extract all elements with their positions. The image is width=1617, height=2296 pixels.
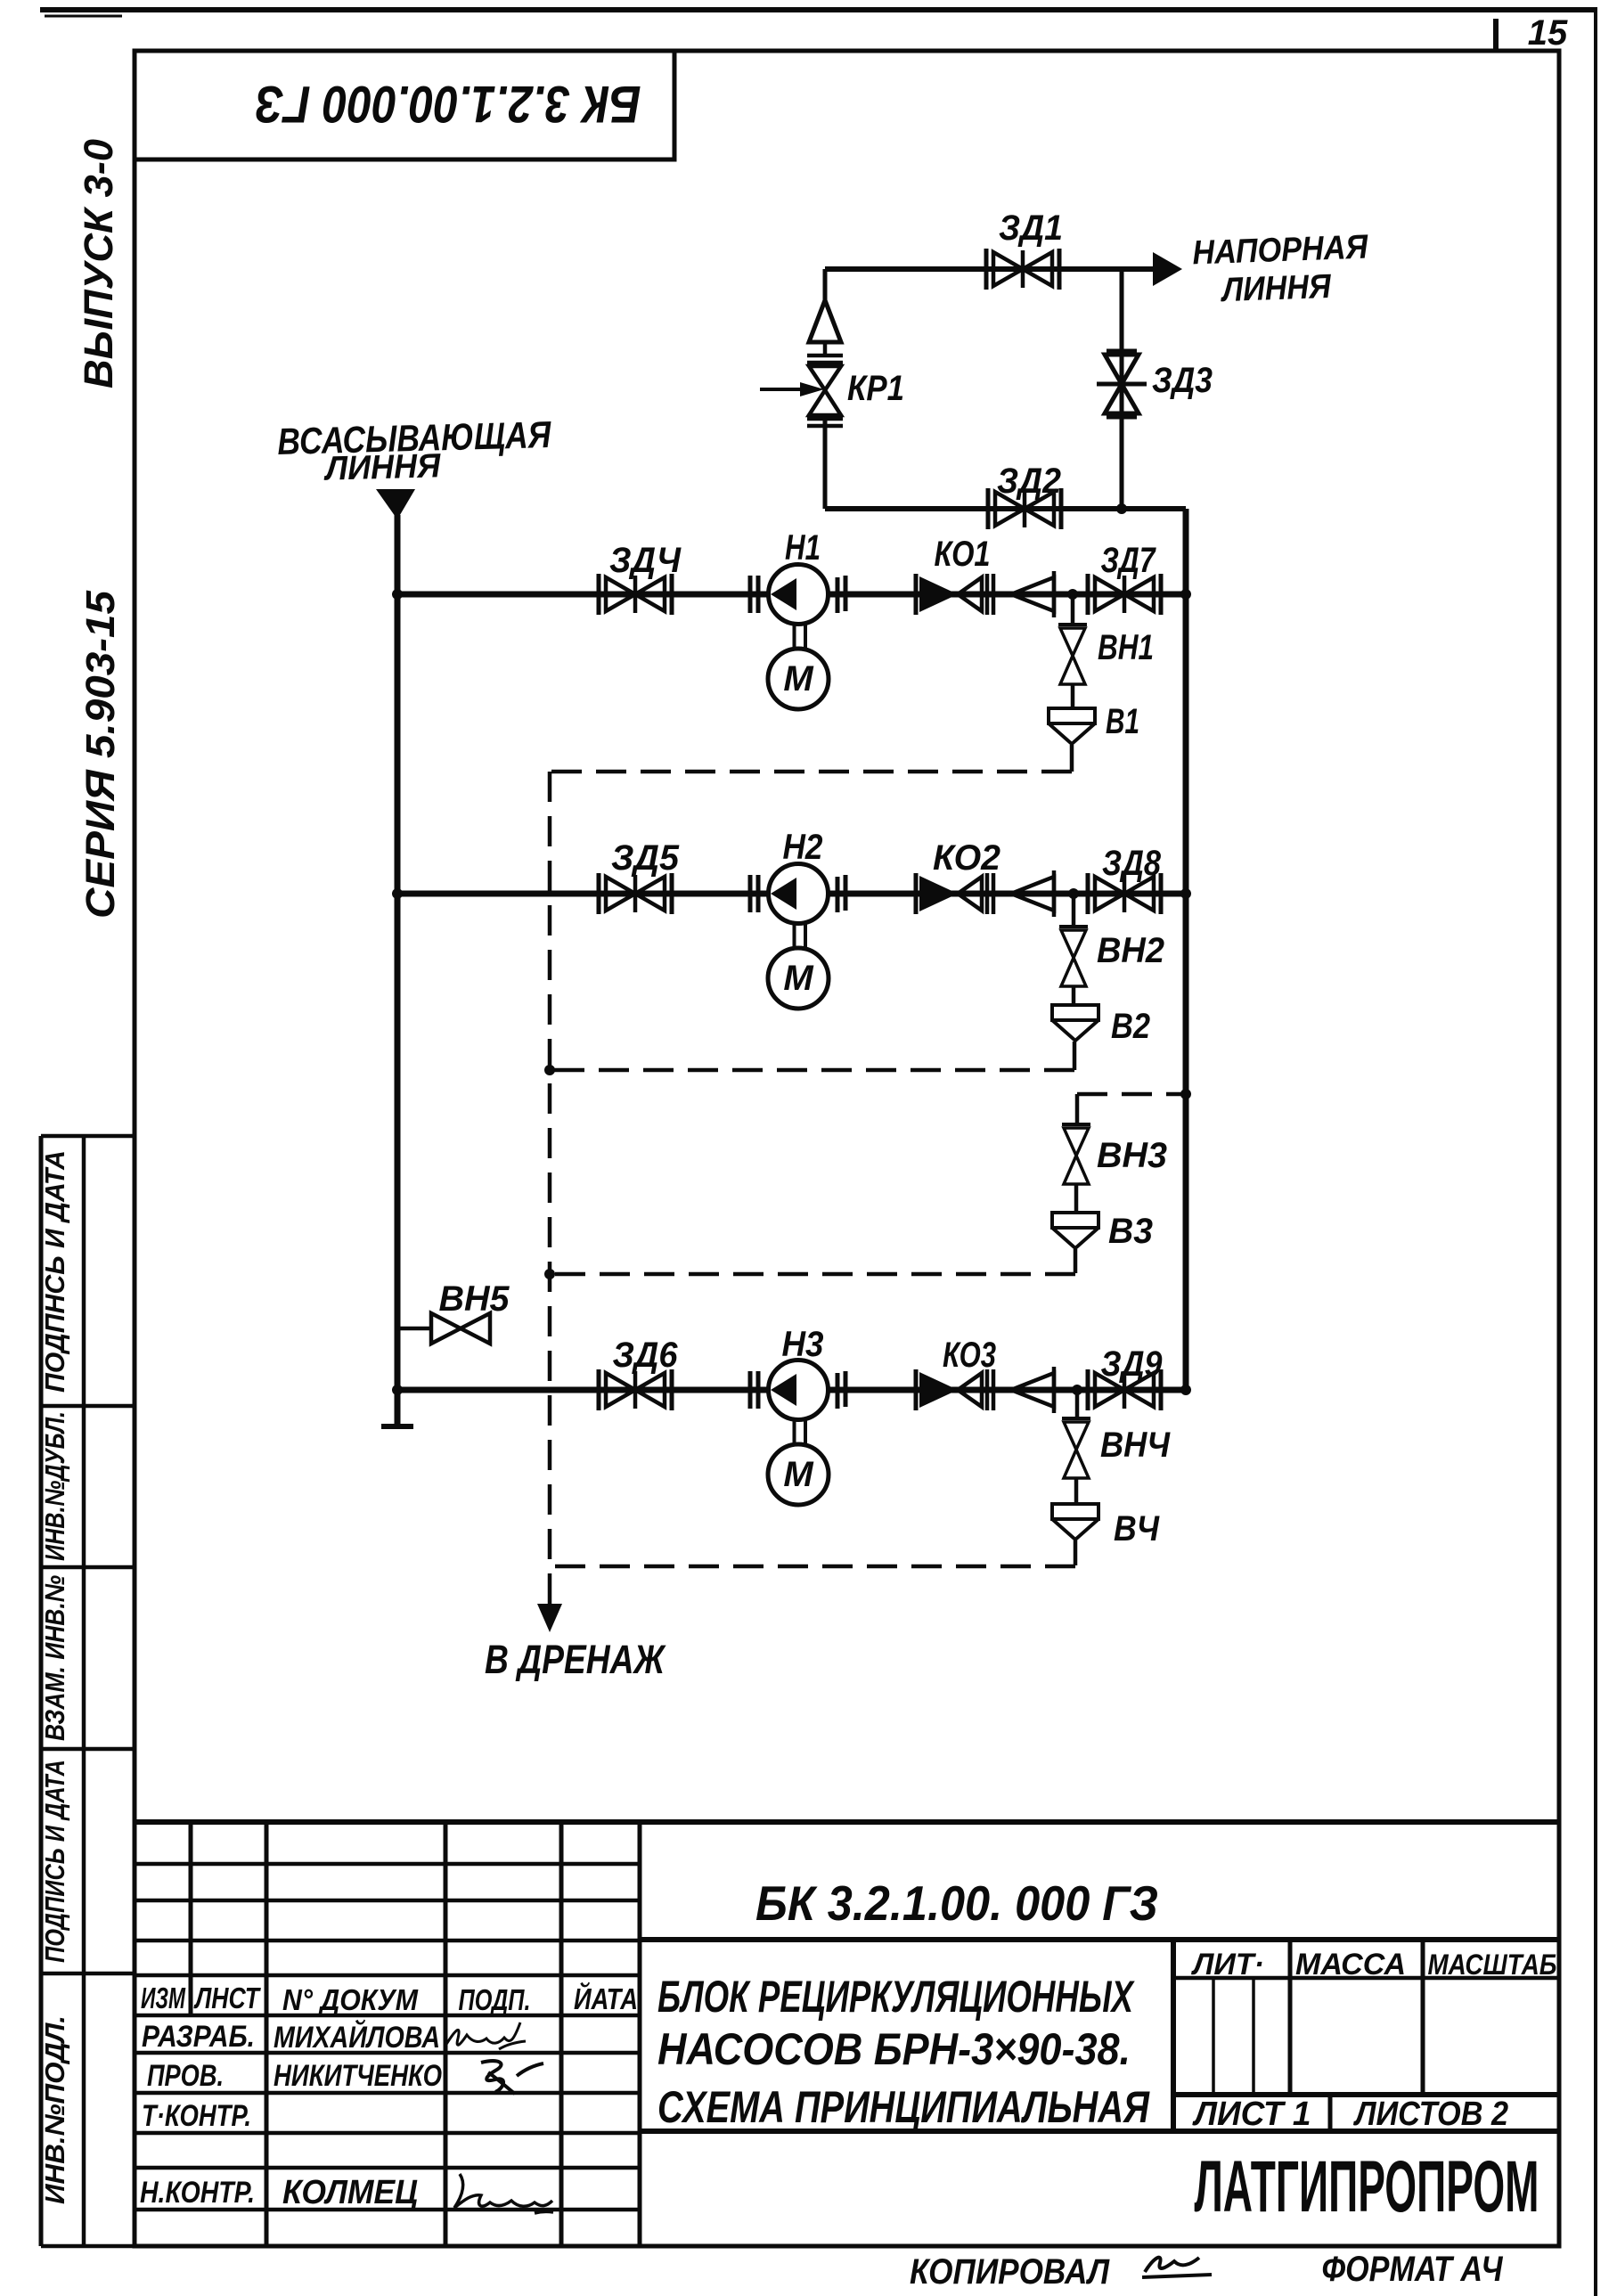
node manifold row2 left — [392, 888, 403, 899]
wire pump row 1 — [397, 592, 1186, 598]
drain funnel В2 — [1052, 1005, 1098, 1041]
КР1 actuator arrow — [760, 388, 802, 391]
node drain row2 — [544, 1065, 555, 1075]
designation box bottom line — [640, 1937, 1559, 1942]
wire KP1 branch vertical upper — [823, 269, 828, 303]
svg-text:ПОДП.: ПОДП. — [459, 1983, 531, 2016]
svg-text:ЛИННЯ: ЛИННЯ — [1219, 268, 1332, 309]
sidebar section lines — [41, 1136, 135, 2246]
check valve КО3 — [916, 1369, 993, 1410]
svg-text:ЛАТГИПРОПРОМ: ЛАТГИПРОПРОМ — [1195, 2146, 1539, 2227]
valve ЗД8 — [1088, 873, 1161, 914]
wire pump row 3 — [397, 1387, 1186, 1393]
wire KP1 branch vertical lower — [823, 417, 828, 509]
title block rows left table — [135, 1864, 640, 2210]
title text row line — [640, 2128, 1559, 2134]
svg-text:ВН1: ВН1 — [1098, 628, 1154, 667]
wire В2 stem — [1073, 1042, 1077, 1070]
svg-text:ЛИННЯ: ЛИННЯ — [323, 447, 442, 487]
relief cone above КР1 — [809, 300, 841, 342]
svg-text:ВЧ: ВЧ — [1114, 1509, 1160, 1548]
wire ВН3 to В3 — [1074, 1185, 1079, 1213]
svg-text:ВН2: ВН2 — [1097, 931, 1164, 970]
svg-text:КОЛМЕЦ: КОЛМЕЦ — [282, 2174, 418, 2211]
valve ВН1 — [1058, 625, 1087, 684]
wire В4 stem — [1074, 1540, 1078, 1565]
wire ВН2 to В2 — [1072, 987, 1076, 1005]
node drain В3 — [544, 1269, 555, 1279]
signature МИХАЙЛОВА — [445, 2022, 526, 2049]
node row3 drain branch — [1072, 1385, 1082, 1395]
svg-text:ЙАТА: ЙАТА — [574, 1981, 638, 2015]
svg-text:15: 15 — [1528, 13, 1568, 53]
svg-text:ЗД2: ЗД2 — [997, 462, 1061, 501]
svg-text:БК 3.2.1.00.000 ГЗ: БК 3.2.1.00.000 ГЗ — [256, 75, 641, 133]
node ЗД3-ЗД2 junction — [1116, 503, 1127, 514]
title block columns left table — [191, 1822, 640, 2246]
svg-text:ЛНСТ: ЛНСТ — [193, 1981, 261, 2014]
svg-text:ВН5: ВН5 — [439, 1279, 510, 1319]
ЛИТ subcolumns — [1213, 1978, 1254, 2095]
svg-text:ПРОВ.: ПРОВ. — [147, 2059, 224, 2093]
pump Н2 with motor — [750, 864, 845, 1009]
drain funnel В3 — [1052, 1213, 1098, 1248]
wire В1 stem — [1070, 745, 1074, 772]
valve ЗД2 — [988, 488, 1061, 529]
svg-text:МАССА: МАССА — [1295, 1948, 1406, 1981]
svg-text:РАЗРАБ.: РАЗРАБ. — [142, 2020, 255, 2054]
sidebar middle vertical — [82, 1136, 86, 2246]
svg-text:ЛИСТОВ 2: ЛИСТОВ 2 — [1352, 2096, 1508, 2133]
page outer top border line — [40, 7, 1597, 12]
valve ВН2 — [1059, 927, 1088, 986]
svg-text:БЛОК РЕЦИРКУЛЯЦИОННЫХ: БЛОК РЕЦИРКУЛЯЦИОННЫХ — [657, 1972, 1135, 2022]
svg-text:СХЕМА ПРИНЦИПИАЛЬНАЯ: СХЕМА ПРИНЦИПИАЛЬНАЯ — [657, 2082, 1150, 2132]
stamp box top-left — [135, 51, 674, 159]
svg-text:ВЫПУСК 3-0: ВЫПУСК 3-0 — [76, 139, 121, 388]
signature НИКИТЧЕНКО — [481, 2061, 543, 2094]
wire ВН1 to В1 — [1071, 685, 1075, 708]
svg-text:ЗДЧ: ЗДЧ — [609, 541, 682, 580]
svg-text:Н2: Н2 — [783, 828, 823, 867]
wire dashed manifold to ВН3 — [1077, 1092, 1186, 1097]
flange pair below КР1 — [807, 419, 843, 426]
wire pressure top line — [825, 266, 1156, 272]
svg-text:В3: В3 — [1108, 1212, 1153, 1251]
node manifold row2 right — [1180, 888, 1191, 899]
svg-text:КОПИРОВАЛ: КОПИРОВАЛ — [910, 2252, 1110, 2292]
svg-text:В1: В1 — [1106, 702, 1139, 741]
svg-text:ИНВ.№ДУБЛ.: ИНВ.№ДУБЛ. — [39, 1411, 70, 1561]
valve ЗД7 — [1088, 574, 1161, 615]
flange pair above КР1 — [807, 355, 843, 363]
svg-text:Н3: Н3 — [782, 1325, 824, 1364]
wire ВН4 branch — [1075, 1390, 1080, 1418]
node row2 drain branch — [1068, 888, 1079, 899]
wire dashed drain header row3 — [550, 1565, 1075, 1569]
pump Н1 with motor — [750, 565, 845, 710]
svg-text:НАСОСОВ БРН-3×90-38.: НАСОСОВ БРН-3×90-38. — [657, 2024, 1131, 2074]
svg-text:ЗД7: ЗД7 — [1101, 541, 1156, 580]
svg-text:ЗД5: ЗД5 — [611, 838, 680, 878]
svg-text:ИЗМ: ИЗМ — [141, 1981, 186, 2014]
suction line arrow — [376, 489, 415, 519]
svg-text:МАСШТАБ: МАСШТАБ — [1428, 1949, 1557, 1981]
wire right manifold vertical — [1183, 509, 1189, 1390]
svg-text:КР1: КР1 — [847, 369, 904, 408]
reducer cone row2 — [1011, 870, 1054, 917]
valve ЗД3 vertical — [1097, 351, 1147, 417]
svg-text:ЗД9: ЗД9 — [1101, 1344, 1164, 1384]
node manifold dashed branch — [1180, 1089, 1191, 1099]
svg-text:ВНЧ: ВНЧ — [1100, 1426, 1171, 1465]
ЛИСТ row line — [1173, 2092, 1559, 2097]
svg-text:ЗД6: ЗД6 — [613, 1336, 679, 1375]
svg-text:В2: В2 — [1111, 1007, 1150, 1046]
valve ЗД4 — [599, 574, 672, 615]
svg-text:БК 3.2.1.00. 000 ГЗ: БК 3.2.1.00. 000 ГЗ — [755, 1875, 1158, 1931]
page outer top border stub — [45, 15, 122, 18]
svg-text:ЛИТ·: ЛИТ· — [1190, 1948, 1264, 1981]
title area divider vertical — [1171, 1940, 1176, 2131]
svg-text:КО2: КО2 — [933, 838, 1000, 878]
svg-text:СЕРИЯ 5.903-15: СЕРИЯ 5.903-15 — [78, 590, 123, 919]
svg-text:ЗД3: ЗД3 — [1152, 361, 1213, 400]
valve ЗД6 — [599, 1369, 672, 1410]
svg-text:КО1: КО1 — [935, 535, 991, 574]
valve ЗД5 — [599, 873, 672, 914]
pump Н3 with motor — [750, 1360, 845, 1506]
title block top thick line — [135, 1819, 1559, 1825]
signature КОЛМЕЦ — [454, 2174, 553, 2213]
svg-text:Н.КОНТР.: Н.КОНТР. — [140, 2176, 255, 2210]
wire ВН2 branch — [1072, 894, 1076, 927]
svg-text:МИХАЙЛОВА: МИХАЙЛОВА — [274, 2020, 440, 2055]
ЛИТ МАССА МАСШТАБ header line — [1173, 1976, 1559, 1981]
svg-text:ЛИСТ 1: ЛИСТ 1 — [1192, 2096, 1311, 2133]
svg-text:ПОДПНСЬ И ДАТА: ПОДПНСЬ И ДАТА — [39, 1150, 70, 1393]
svg-text:ВН3: ВН3 — [1097, 1136, 1167, 1175]
ЛИСТ ЛИСТОВ divider — [1328, 2095, 1333, 2131]
reducer cone row3 — [1011, 1367, 1054, 1413]
valve ЗД1 — [986, 249, 1059, 290]
wire suction manifold vertical — [395, 515, 401, 1426]
valve ВН3 — [1062, 1124, 1090, 1184]
sidebar outer vertical — [39, 1136, 44, 2246]
КР1 actuator arrowhead — [800, 382, 824, 396]
wire КР1 cone stem — [823, 342, 828, 356]
wire ВН3 drop — [1075, 1094, 1080, 1124]
check valve КО2 — [916, 873, 993, 914]
svg-text:ИНВ.№ПОДЛ.: ИНВ.№ПОДЛ. — [39, 2015, 70, 2204]
sheet number tick — [1493, 19, 1499, 51]
wire pump row 2 — [397, 891, 1186, 897]
wire В3 stem — [1074, 1249, 1078, 1273]
reducer cone row1 — [1011, 571, 1054, 617]
svg-text:В ДРЕНАЖ: В ДРЕНАЖ — [485, 1637, 666, 1682]
drain arrow — [537, 1604, 562, 1632]
valve ЗД9 — [1088, 1369, 1161, 1410]
suction manifold bottom cap — [381, 1424, 413, 1429]
node manifold row1 left — [392, 589, 403, 600]
wire manifold to ВН5 — [397, 1327, 431, 1331]
signature КОПИРОВАЛ — [1142, 2258, 1212, 2277]
wire ВН4 to В4 — [1074, 1479, 1079, 1504]
wire dashed drain header row1 — [550, 770, 1072, 774]
node manifold row3 right — [1180, 1385, 1191, 1395]
node manifold row3 left — [392, 1385, 403, 1395]
svg-text:НИКИТЧЕНКО: НИКИТЧЕНКО — [274, 2059, 442, 2093]
svg-text:ЗД1: ЗД1 — [999, 208, 1063, 248]
wire ЗД3 branch vertical — [1120, 269, 1124, 509]
control valve КР1 — [809, 366, 841, 415]
svg-text:ПОДПИСЬ И ДАТА: ПОДПИСЬ И ДАТА — [39, 1760, 70, 1963]
svg-text:КО3: КО3 — [943, 1336, 996, 1375]
drain funnel В1 — [1049, 708, 1095, 744]
pressure line arrow — [1153, 252, 1182, 286]
wire recirculation line ЗД2 — [825, 506, 1186, 511]
svg-text:ВЗАМ. ИНВ.№: ВЗАМ. ИНВ.№ — [39, 1575, 70, 1741]
check valve КО1 — [916, 574, 993, 615]
node row1 drain branch — [1067, 589, 1078, 600]
svg-text:ЗД8: ЗД8 — [1102, 844, 1162, 883]
valve ВН5 — [431, 1313, 490, 1344]
svg-text:Т·КОНТР.: Т·КОНТР. — [142, 2099, 251, 2133]
wire dashed drain header row2 — [550, 1068, 1074, 1073]
wire dashed drain vertical — [548, 772, 552, 1604]
svg-text:НАПОРНАЯ: НАПОРНАЯ — [1192, 229, 1370, 273]
page outer right border line — [1594, 8, 1597, 2296]
wire ВН1 branch — [1071, 594, 1075, 625]
svg-text:N° ДОКУМ: N° ДОКУМ — [282, 1983, 419, 2016]
svg-text:ФОРМАТ АЧ: ФОРМАТ АЧ — [1322, 2250, 1504, 2289]
wire dashed drain header В3 — [550, 1272, 1075, 1277]
svg-text:Н1: Н1 — [785, 528, 821, 568]
ЛИТ МАССА МАСШТАБ columns — [1290, 1940, 1423, 2095]
node manifold row1 right — [1180, 589, 1191, 600]
drain funnel В4 — [1052, 1504, 1098, 1540]
valve ВН4 — [1062, 1418, 1090, 1478]
